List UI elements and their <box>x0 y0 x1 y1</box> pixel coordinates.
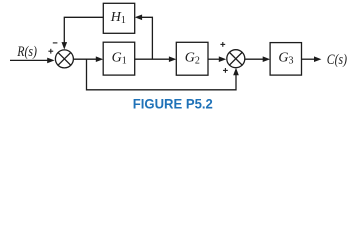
block H1 <box>103 3 134 33</box>
svg-text:H1: H1 <box>110 10 126 26</box>
plus sign at S2 left input <box>220 42 225 47</box>
block G1 <box>103 42 135 75</box>
wire: S2 output to block G3 <box>245 56 270 62</box>
svg-text:C(s): C(s) <box>327 52 347 68</box>
wire: H1 output left then down into S1 top <box>62 17 104 49</box>
wire: S1 output to block G1 <box>74 56 103 62</box>
plus sign at S2 bottom input <box>223 68 228 73</box>
svg-text:R(s): R(s) <box>16 44 37 60</box>
block G3 <box>270 43 301 76</box>
wire: take-off up from G1 output to H1 input <box>135 15 153 60</box>
minus sign at S1 top input <box>53 42 58 44</box>
summing junction S2 (circle with X) <box>227 50 245 68</box>
wire: G2 output to summing junction S2 <box>208 56 226 62</box>
plus sign at S1 left input <box>48 49 53 54</box>
svg-text:G3: G3 <box>278 51 293 67</box>
wire: G3 output to C(s) <box>302 56 322 62</box>
wire: G1 output to block G2 (with take-off junction to H1) <box>135 56 177 62</box>
wire: feedforward from S1 output down along bottom and up into S2 <box>87 59 239 90</box>
svg-text:G1: G1 <box>112 50 127 66</box>
block G2 <box>176 42 208 75</box>
svg-text:FIGURE P5.2: FIGURE P5.2 <box>133 96 213 112</box>
summing junction S1 (circle with X) <box>55 50 73 68</box>
svg-text:G2: G2 <box>185 50 200 66</box>
wire: R(s) input line into summing junction S1 <box>10 58 55 64</box>
